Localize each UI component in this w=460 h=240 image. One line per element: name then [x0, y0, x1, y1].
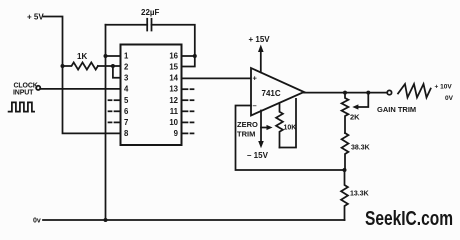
pin 5 stub	[109, 99, 121, 101]
svg-text:4: 4	[124, 85, 129, 94]
wire pin 1 stub	[106, 55, 121, 57]
junction feedback / divider	[343, 168, 347, 172]
svg-text:–: –	[253, 101, 257, 110]
svg-text:GAIN TRIM: GAIN TRIM	[377, 105, 416, 114]
svg-text:13: 13	[169, 85, 178, 94]
svg-text:6: 6	[124, 107, 129, 116]
svg-text:INPUT: INPUT	[13, 90, 34, 97]
svg-text:1K: 1K	[77, 52, 87, 61]
svg-text:+ 5V: + 5V	[27, 13, 44, 22]
svg-text:0v: 0v	[33, 218, 41, 225]
svg-text:741C: 741C	[262, 89, 281, 98]
svg-text:22µF: 22µF	[141, 8, 160, 17]
wire capacitor branch down to 0V rail	[105, 25, 107, 220]
potentiometer 10K	[276, 103, 283, 147]
resistor 13.3K	[341, 170, 348, 220]
capacitor C1 22uF plates	[146, 19, 148, 31]
junction pin16 / pin15 / cap	[193, 54, 197, 58]
pin 12 stub	[182, 99, 194, 101]
svg-text:9: 9	[174, 129, 179, 138]
potentiometer 2K	[342, 93, 349, 133]
junction output / gain trim wiper	[366, 91, 370, 95]
wire junction to pin 3	[113, 66, 121, 78]
wire capacitor top left	[106, 24, 148, 26]
pin 13 stub	[182, 88, 194, 90]
svg-text:2K: 2K	[350, 113, 360, 122]
svg-text:12: 12	[169, 96, 178, 105]
wire capacitor right to pin16 node	[152, 25, 195, 56]
wire op-amp output	[304, 92, 387, 94]
svg-text:+ 15V: + 15V	[249, 35, 271, 44]
junction pin 1 / cap branch	[104, 54, 108, 58]
svg-text:38.3K: 38.3K	[351, 145, 370, 152]
pin 9 stub	[182, 132, 194, 134]
output terminal circle	[387, 90, 391, 94]
svg-text:+: +	[253, 74, 258, 83]
pin 7 stub	[109, 121, 121, 123]
resistor 38.3K	[342, 133, 349, 170]
wire clock input to IC pin 4	[40, 88, 120, 90]
junction pin2 / pin3 loop	[111, 64, 115, 68]
zero trim wiper line to -15V arrow	[258, 111, 264, 149]
zero trim wiper arrow into pot	[261, 125, 273, 130]
svg-text:16: 16	[169, 52, 178, 61]
clock input terminal	[36, 86, 40, 90]
wire pin 16 stub	[182, 55, 195, 57]
svg-text:11: 11	[170, 107, 179, 116]
svg-text:3: 3	[124, 74, 129, 83]
junction +5V / 1K resistor	[61, 64, 65, 68]
svg-text:1: 1	[124, 52, 129, 61]
op-amp U2 741C triangle	[251, 68, 304, 116]
svg-text:0V: 0V	[445, 95, 454, 102]
svg-text:SeekIC.com: SeekIC.com	[365, 208, 453, 230]
pin number labels left 1-8	[124, 52, 129, 138]
wire inverting input feedback path	[236, 106, 345, 171]
svg-text:– 15V: – 15V	[247, 151, 269, 160]
output sawtooth waveform symbol	[398, 84, 431, 98]
svg-text:CLOCK: CLOCK	[14, 82, 38, 89]
svg-text:15: 15	[169, 63, 178, 72]
gain trim wiper arrow	[352, 93, 368, 110]
svg-text:13.3K: 13.3K	[350, 191, 369, 198]
svg-text:10K: 10K	[284, 125, 297, 132]
pin number labels right 16-9	[169, 52, 178, 138]
0V rail	[43, 219, 345, 221]
IC U1 16-pin DIP body	[121, 45, 182, 146]
svg-text:14: 14	[169, 74, 178, 83]
svg-text:+ 10V: + 10V	[435, 84, 453, 91]
pin 6 stub	[109, 110, 121, 112]
svg-text:2: 2	[124, 63, 129, 72]
wire +5V rail to IC pin 8	[44, 17, 121, 134]
junction cap branch / 0V rail	[104, 218, 108, 222]
wire pin 14 to op-amp non-inverting input	[182, 77, 252, 79]
wire pin 15 loop	[182, 56, 195, 67]
pin 10 stub	[182, 121, 194, 123]
svg-text:ZERO: ZERO	[237, 120, 258, 129]
wire pot bottom to op-amp underside	[280, 99, 297, 148]
svg-text:5: 5	[124, 96, 129, 105]
wire 1K to pin 2	[98, 65, 121, 67]
svg-text:10: 10	[169, 118, 178, 127]
junction output / 2K pot	[343, 91, 347, 95]
svg-text:TRIM: TRIM	[237, 130, 255, 139]
clock waveform symbol	[9, 102, 35, 111]
pin 11 stub	[182, 110, 194, 112]
+15V supply arrow	[258, 45, 264, 73]
svg-text:7: 7	[124, 118, 128, 127]
resistor 1K	[63, 62, 98, 69]
svg-text:8: 8	[124, 129, 129, 138]
